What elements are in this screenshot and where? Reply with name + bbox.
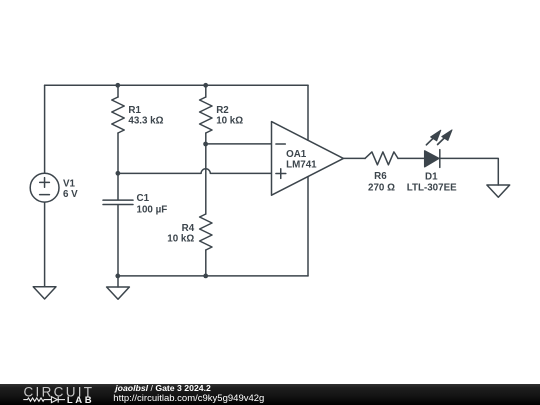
wire V1 bottom to ground (44, 202, 46, 287)
svg-text:OA1: OA1 (286, 149, 307, 160)
wire inverting input from R2 node (206, 143, 272, 145)
svg-text:C1: C1 (137, 193, 150, 204)
svg-text:V1: V1 (63, 179, 76, 190)
CircuitLab logo LAB text (67, 395, 94, 405)
footer author and title (114, 383, 211, 393)
svg-text:LAB: LAB (67, 395, 94, 405)
capacitor C1 (103, 173, 133, 276)
svg-text:43.3 kΩ: 43.3 kΩ (128, 115, 163, 126)
op-amp OA1 (272, 122, 344, 196)
resistor R6 (365, 152, 398, 165)
label R6 value (368, 171, 395, 194)
svg-text:R2: R2 (216, 105, 229, 116)
svg-text:LTL-307EE: LTL-307EE (407, 182, 457, 193)
svg-text:270 Ω: 270 Ω (368, 183, 395, 194)
svg-text:10 kΩ: 10 kΩ (216, 115, 243, 126)
label D1 value (407, 171, 457, 193)
wire top rail (45, 84, 308, 86)
resistor R1 (112, 85, 124, 173)
wire R6 to D1 (398, 157, 425, 159)
wire D1 to right corner (440, 158, 499, 185)
voltage source V1 (30, 173, 59, 202)
label R1 value (128, 105, 163, 127)
wire op-amp output (343, 157, 365, 159)
ground right of D1 (487, 185, 510, 197)
LED D1 (425, 130, 452, 168)
node junction dots (115, 83, 208, 278)
CircuitLab logo wordmark (24, 384, 95, 399)
CircuitLab logo resistor-diode glyph (23, 397, 65, 403)
svg-text:6 V: 6 V (63, 189, 78, 200)
svg-text:LM741: LM741 (286, 160, 317, 171)
svg-text:100 µF: 100 µF (137, 204, 168, 215)
label C1 value (137, 193, 168, 215)
svg-text:http://circuitlab.com/c9ky5g94: http://circuitlab.com/c9ky5g949v42g (113, 393, 264, 404)
label V1 value (63, 179, 78, 201)
label OA1 LM741 (286, 149, 317, 171)
wire op-amp V+ power (307, 85, 309, 140)
svg-text:R1: R1 (128, 105, 141, 116)
svg-text:joaolbsl / Gate 3 2024.2: joaolbsl / Gate 3 2024.2 (114, 383, 211, 393)
svg-text:D1: D1 (425, 171, 438, 182)
label R2 value (216, 105, 243, 127)
wire bottom rail (118, 275, 308, 277)
svg-text:R6: R6 (374, 171, 387, 182)
ground below V1 (33, 287, 56, 299)
wire non-inverting input with hop over R4 net (118, 169, 272, 174)
footer url (113, 393, 264, 404)
ground below C1 (107, 276, 130, 299)
wire op-amp V- power (307, 177, 309, 276)
wire left vertical to V1 (44, 85, 46, 173)
resistor R2 (200, 85, 212, 144)
resistor R4 (200, 144, 212, 276)
footer watermark bar (0, 384, 540, 405)
svg-text:10 kΩ: 10 kΩ (167, 233, 194, 244)
label R4 value (167, 223, 194, 244)
